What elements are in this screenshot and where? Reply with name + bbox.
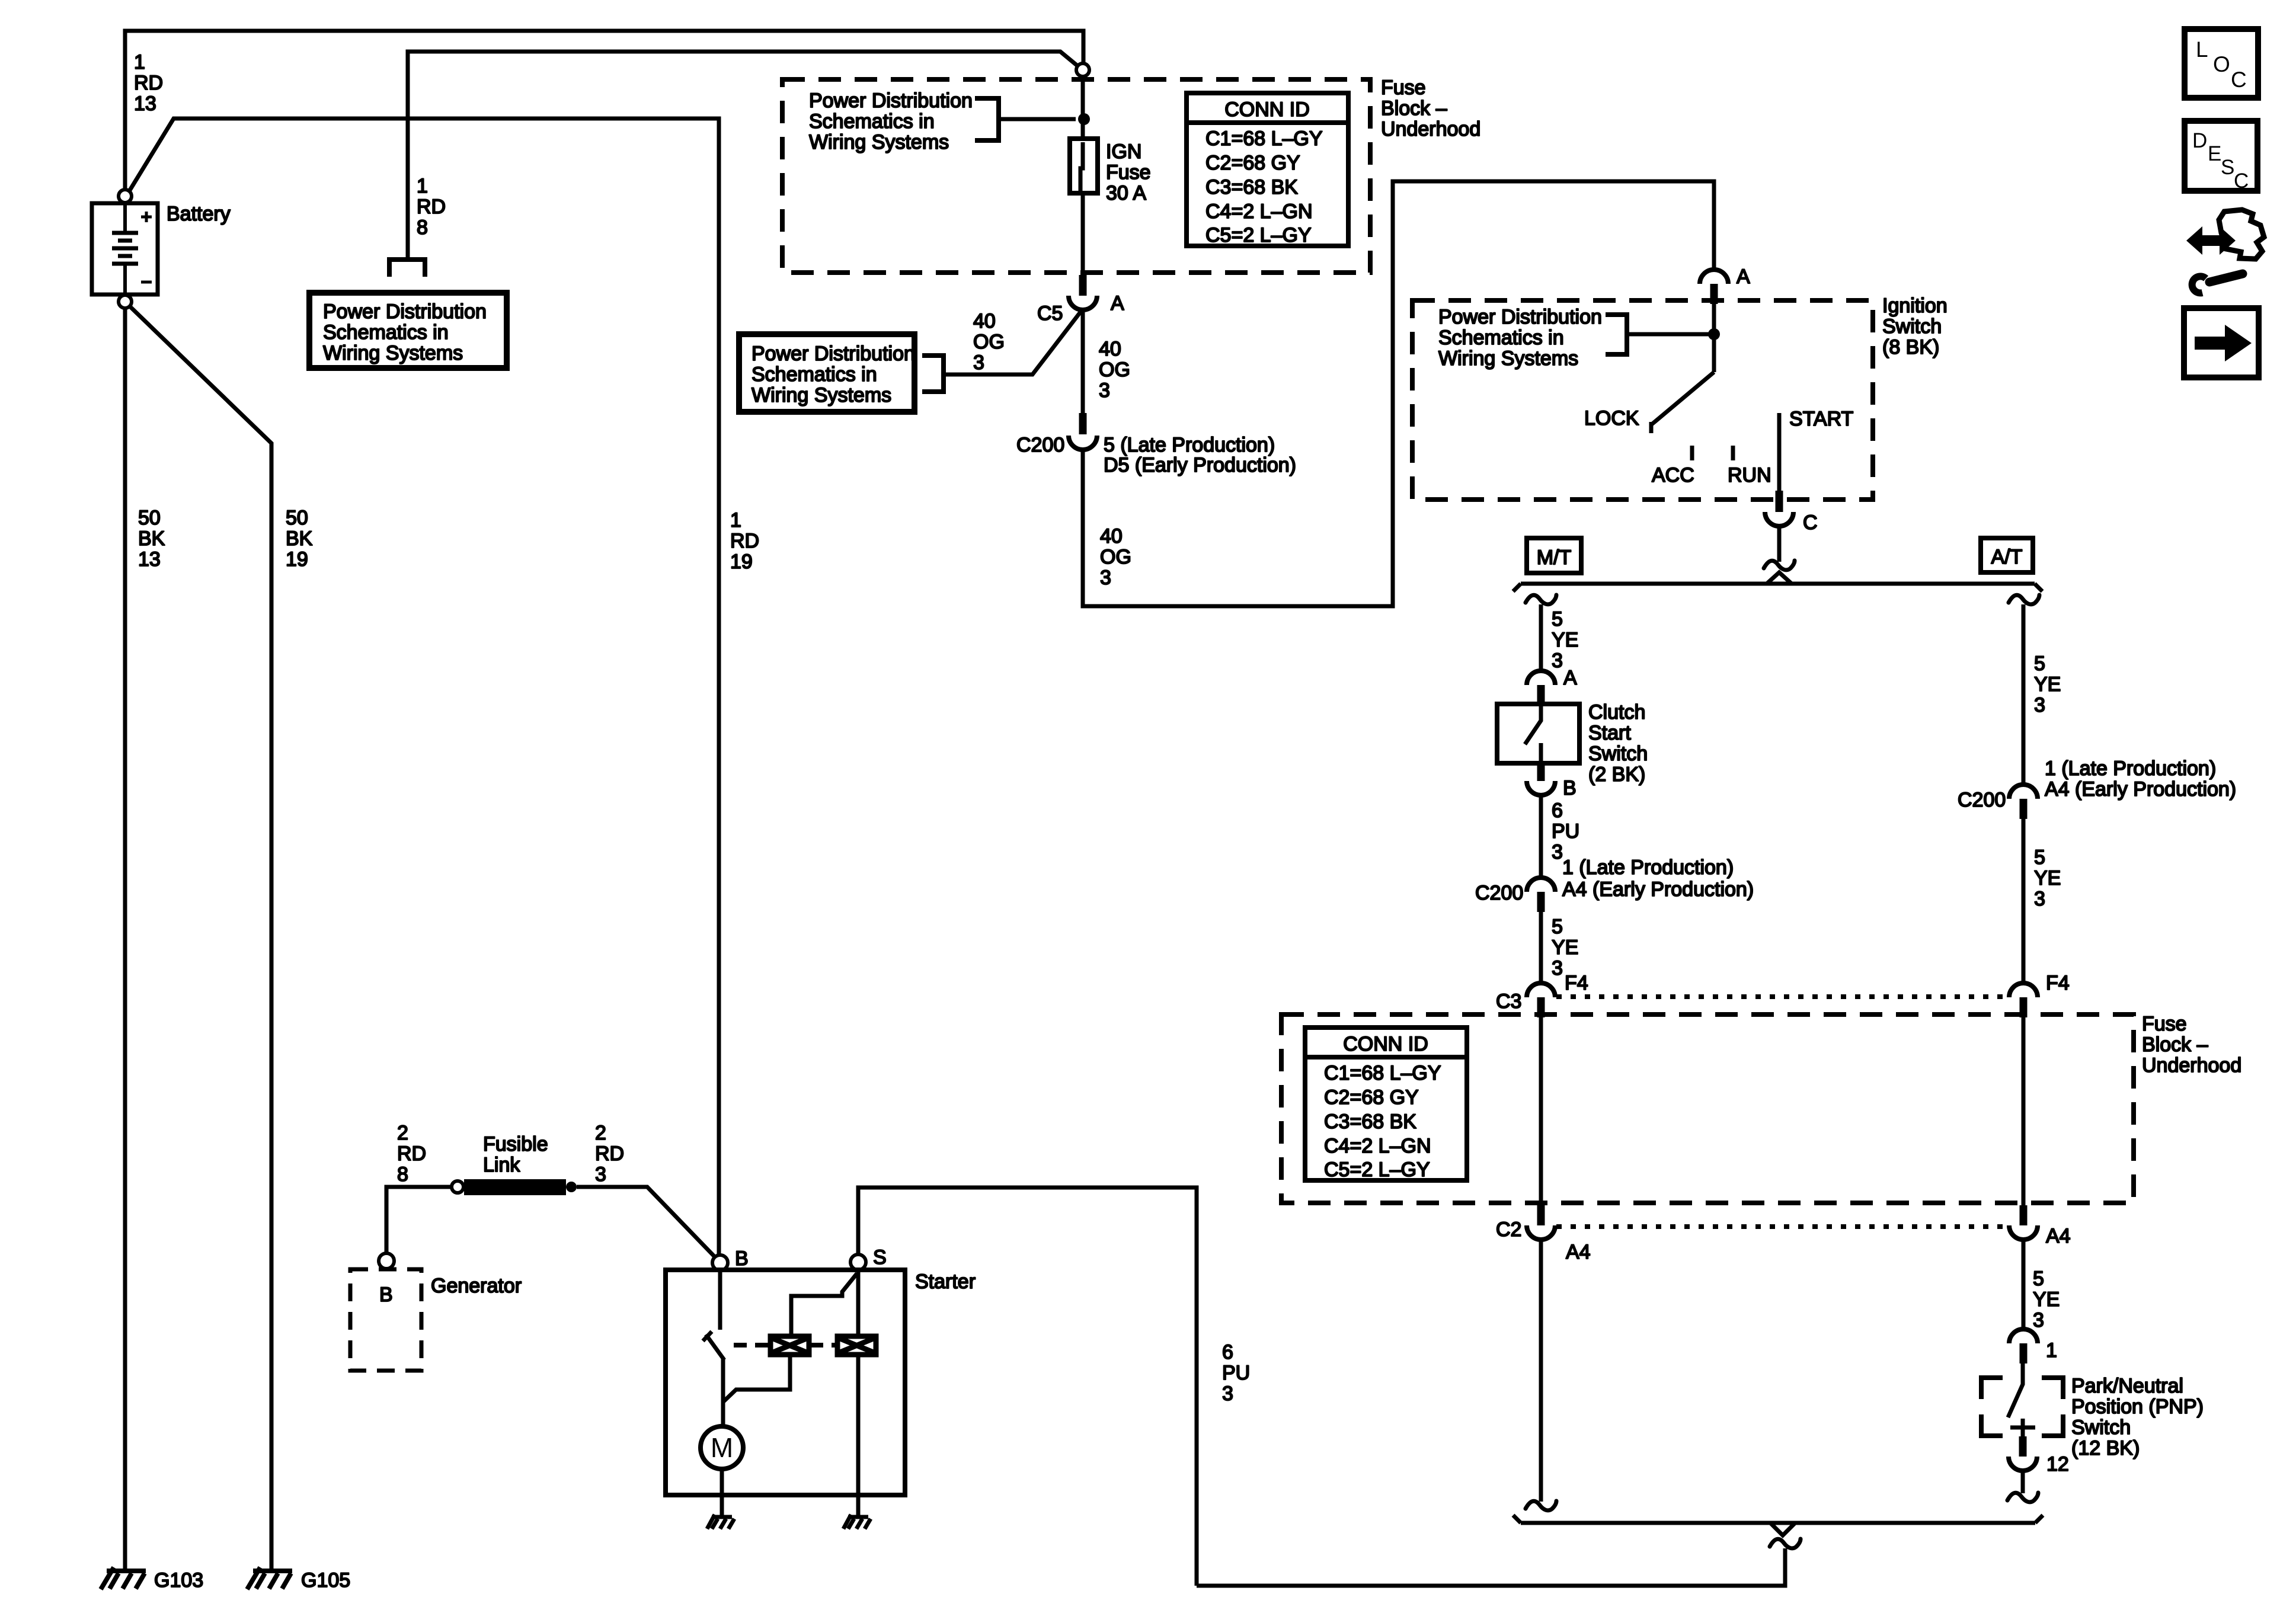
svg-text:50: 50: [138, 507, 161, 529]
svg-text:D5 (Early Production): D5 (Early Production): [1104, 454, 1296, 476]
bracket: reference bracket beside note (fuse block): [975, 98, 999, 140]
battery: cell plates: [123, 203, 127, 295]
M/T tag box: [1527, 538, 1581, 573]
A/T tag box: [1981, 538, 2033, 572]
svg-text:3: 3: [2033, 1309, 2044, 1331]
svg-text:BK: BK: [286, 527, 313, 550]
node: open junction circle at fuse feed: [1076, 63, 1089, 76]
svg-text:5: 5: [2034, 652, 2045, 675]
PNP switch dashed corner box: [1981, 1378, 2063, 1436]
svg-text:LOCK: LOCK: [1584, 407, 1639, 430]
svg-text:3: 3: [973, 351, 984, 374]
generator dashed box: [350, 1269, 421, 1371]
svg-text:Ignition: Ignition: [1882, 295, 1948, 317]
svg-text:B: B: [735, 1247, 749, 1270]
ignition switch dashed box: [1412, 300, 1873, 500]
fusible link: right dot: [566, 1182, 577, 1192]
svg-text:3: 3: [2034, 694, 2045, 716]
junction dot on ignition wiper: [1708, 328, 1720, 340]
ground: starter solenoid: [843, 1515, 871, 1529]
svg-text:Underhood: Underhood: [2142, 1054, 2241, 1077]
svg-text:G105: G105: [301, 1569, 350, 1592]
svg-text:F4: F4: [1565, 972, 1588, 994]
wire: ignition A tick down through junction: [1712, 304, 1716, 372]
CONN ID table (upper fuse block): [1187, 93, 1348, 247]
connector clutch B: male tick: [1537, 761, 1545, 781]
connector ignition C: female cup: [1765, 512, 1793, 526]
svg-text:Underhood: Underhood: [1381, 118, 1480, 140]
wire: C200 loop to ignition switch terminal A: [1083, 181, 1714, 606]
svg-text:M: M: [711, 1432, 733, 1463]
connector C200 M/T: male tick: [1537, 892, 1545, 912]
connector clutch A: male tick: [1537, 685, 1545, 705]
svg-text:YE: YE: [2033, 1288, 2060, 1311]
svg-text:O: O: [2213, 52, 2230, 76]
svg-text:8: 8: [397, 1163, 408, 1186]
svg-text:C3: C3: [1496, 990, 1521, 1013]
svg-text:Starter: Starter: [915, 1270, 976, 1293]
svg-text:C1=68 L–GY: C1=68 L–GY: [1205, 127, 1323, 150]
wire: bracket to IGN feed junction: [999, 117, 1076, 121]
wire: PNP 12 down to rejoin: [2021, 1471, 2025, 1493]
wire: F4 through fuse block to A4: [2022, 1017, 2026, 1205]
svg-text:BK: BK: [138, 527, 165, 550]
wire: fusible link to starter B: [577, 1187, 715, 1257]
svg-text:A/T: A/T: [1991, 546, 2023, 568]
svg-text:Schematics in: Schematics in: [752, 363, 877, 386]
svg-text:3: 3: [1552, 841, 1563, 863]
wire: generator B up to fusible link: [386, 1187, 451, 1253]
svg-text:6: 6: [1552, 799, 1563, 822]
svg-text:40: 40: [1099, 338, 1121, 360]
starter: S feed diagonal to pull-in coil: [791, 1273, 857, 1336]
svg-text:Power Distribution: Power Distribution: [809, 89, 973, 112]
svg-text:Park/Neutral: Park/Neutral: [2071, 1375, 2183, 1397]
connector C5 pin A: male tick: [1079, 275, 1087, 296]
svg-text:C5=2 L–GY: C5=2 L–GY: [1324, 1158, 1430, 1181]
wire: bracket to ignition wiper junction: [1627, 332, 1710, 337]
battery: box: [92, 203, 158, 295]
wire: clutch B down to C200: [1539, 795, 1543, 878]
hook: right end of bus: [2035, 1515, 2043, 1523]
connector PNP 12: female cup: [2009, 1457, 2037, 1471]
svg-text:RD: RD: [397, 1142, 426, 1165]
svg-text:12: 12: [2046, 1453, 2069, 1475]
svg-text:A4 (Early Production): A4 (Early Production): [2045, 778, 2236, 801]
svg-text:C200: C200: [1958, 789, 2006, 811]
break squiggle: M/T branch: [1526, 595, 1556, 604]
svg-text:40: 40: [973, 310, 996, 332]
svg-text:5: 5: [2034, 846, 2045, 869]
svg-text:F4: F4: [2046, 972, 2070, 994]
fuse block underhood dashed box (lower): [1281, 1014, 2134, 1203]
svg-text:Switch: Switch: [1588, 742, 1648, 765]
svg-text:Battery: Battery: [167, 203, 231, 225]
connector C2 A4: male tick: [1537, 1205, 1545, 1225]
connector A4 A/T: male tick: [2020, 1205, 2028, 1225]
svg-text:C2=68 GY: C2=68 GY: [1324, 1086, 1419, 1109]
svg-text:A: A: [1111, 292, 1124, 315]
box: Power Distribution Schematics in Wiring Systems (left): [309, 293, 507, 368]
svg-text:C: C: [2231, 68, 2247, 92]
connector ignition C: male tick: [1776, 491, 1783, 512]
starter: B feed into solenoid switch: [718, 1271, 722, 1330]
break squiggle: M/T rejoin: [1526, 1501, 1556, 1510]
icon: arrow box: [2184, 308, 2259, 377]
wire: junction node left along second row to 1 RD 8 drop: [408, 52, 1077, 258]
break squiggle: A/T rejoin: [2007, 1493, 2038, 1502]
svg-text:C2=68 GY: C2=68 GY: [1205, 152, 1300, 174]
clutch start switch box: [1497, 704, 1579, 763]
svg-text:(12 BK): (12 BK): [2071, 1437, 2140, 1459]
svg-text:Wiring Systems: Wiring Systems: [1438, 347, 1578, 370]
svg-text:3: 3: [2034, 888, 2045, 910]
icon: schematic navigation (arrow, connector outline, wrench): [2186, 210, 2264, 293]
svg-text:S: S: [873, 1246, 887, 1269]
svg-text:G103: G103: [154, 1569, 203, 1592]
wire: battery negative diagonal to ground G105: [130, 306, 271, 1569]
svg-text:1 (Late Production): 1 (Late Production): [2045, 757, 2216, 780]
ground G103 symbol: [101, 1567, 146, 1589]
dotted connector rail (lower, C2 to A4): [1556, 1224, 2007, 1229]
svg-text:ACC: ACC: [1652, 464, 1694, 486]
connector PNP 1: male tick: [2020, 1343, 2028, 1363]
caret junction: starter feed joins bus: [1770, 1523, 1795, 1535]
battery: minus sign: [141, 281, 152, 284]
connector ignition A: female cup: [1700, 270, 1728, 284]
wire: C3 through fuse block to C2: [1539, 1017, 1543, 1205]
starter motor M circle: [701, 1426, 743, 1469]
svg-text:A4 (Early Production): A4 (Early Production): [1562, 878, 1754, 901]
svg-text:3: 3: [1552, 649, 1563, 672]
fuse block underhood dashed box (upper): [782, 79, 1370, 273]
switch wiper: lever toward LOCK: [1651, 372, 1714, 433]
svg-text:13: 13: [134, 92, 156, 115]
svg-text:B: B: [379, 1283, 393, 1306]
svg-text:YE: YE: [1552, 936, 1578, 959]
icon: DESC box: [2185, 121, 2257, 193]
generator terminal B circle: [379, 1253, 394, 1269]
svg-text:Power Distribution: Power Distribution: [1438, 306, 1602, 328]
starter: switch to motor wire with coil tap: [723, 1355, 790, 1426]
svg-text:1: 1: [730, 509, 741, 532]
svg-text:YE: YE: [2034, 673, 2061, 696]
svg-text:RD: RD: [134, 72, 163, 94]
PNP switch lever and contact: [2008, 1363, 2035, 1438]
svg-text:Block –: Block –: [1381, 97, 1447, 120]
svg-text:Link: Link: [483, 1154, 520, 1176]
CONN ID table (lower fuse block): [1305, 1028, 1467, 1181]
svg-text:1: 1: [134, 51, 145, 73]
svg-text:Fuse: Fuse: [1106, 161, 1151, 184]
svg-text:IGN: IGN: [1106, 140, 1141, 163]
svg-text:YE: YE: [1552, 629, 1578, 651]
svg-text:Wiring Systems: Wiring Systems: [752, 384, 891, 406]
svg-text:A: A: [1737, 265, 1750, 288]
svg-text:3: 3: [1222, 1382, 1233, 1405]
wire: battery positive up and across top to junction node: [125, 31, 1083, 190]
svg-text:19: 19: [730, 550, 753, 573]
svg-text:START: START: [1789, 408, 1853, 430]
fusible link: left open circle: [452, 1181, 463, 1193]
svg-text:13: 13: [138, 548, 161, 571]
starter coil 2 (hold-in winding): [837, 1336, 876, 1355]
battery: positive terminal circle: [119, 190, 132, 203]
svg-text:5: 5: [1552, 608, 1563, 630]
svg-text:C200: C200: [1475, 882, 1523, 904]
bracket: off-page connector above Power Distribution box (left): [389, 260, 425, 277]
svg-text:B: B: [1563, 777, 1576, 799]
svg-text:A4: A4: [1566, 1241, 1591, 1263]
connector C200 (orange feed): female cup: [1069, 436, 1097, 450]
wire: C5 down to C200: [1081, 310, 1085, 413]
svg-text:L: L: [2196, 37, 2208, 62]
bottom rejoin bus line: [1521, 1521, 2035, 1525]
svg-text:C: C: [2234, 169, 2249, 193]
clutch switch contacts and lever: [1525, 705, 1541, 763]
connector clutch B: female cup: [1527, 781, 1555, 795]
hook: left end of bus: [1513, 1515, 1521, 1523]
connector clutch A: female cup: [1527, 671, 1555, 685]
svg-text:Fuse: Fuse: [2142, 1013, 2187, 1035]
svg-text:PU: PU: [1552, 820, 1579, 843]
svg-text:RUN: RUN: [1728, 464, 1771, 486]
wire: solenoid to ground: [856, 1495, 861, 1515]
battery: plus sign: [141, 212, 152, 222]
connector F4 A/T: female cup: [2009, 983, 2038, 997]
starter: solenoid switch lever: [703, 1331, 724, 1360]
wire: START contact down to terminal C: [1777, 413, 1782, 491]
connector A4 A/T: female cup: [2009, 1225, 2038, 1240]
bracket: reference bracket inside ignition box: [1606, 315, 1627, 354]
svg-text:S: S: [2221, 156, 2234, 179]
svg-text:1: 1: [2046, 1339, 2057, 1362]
starter coil 1 (pull-in winding): [770, 1336, 809, 1355]
ground G105 symbol: [247, 1567, 292, 1589]
svg-text:3: 3: [1552, 957, 1563, 980]
svg-text:Wiring Systems: Wiring Systems: [809, 131, 949, 153]
svg-text:8: 8: [417, 216, 428, 239]
connector C200 (orange feed): male tick: [1079, 413, 1087, 434]
svg-text:Wiring Systems: Wiring Systems: [323, 342, 463, 364]
wire: motor to ground: [720, 1469, 724, 1515]
svg-text:RD: RD: [730, 530, 759, 552]
svg-text:C4=2 L–GN: C4=2 L–GN: [1205, 200, 1313, 223]
wire: M/T branch down to clutch switch A: [1539, 604, 1543, 671]
svg-text:50: 50: [286, 507, 308, 529]
svg-text:CONN ID: CONN ID: [1224, 98, 1310, 121]
svg-text:30 A: 30 A: [1106, 182, 1146, 204]
wire: IGN fuse down to C5: [1081, 193, 1085, 275]
svg-text:A: A: [1563, 667, 1577, 689]
svg-text:1 (Late Production): 1 (Late Production): [1562, 856, 1734, 879]
fuse F IGN: element wire: [1080, 142, 1083, 191]
contact tick: RUN: [1731, 446, 1735, 460]
connector ignition A: male tick: [1710, 284, 1718, 304]
svg-text:Power Distribution: Power Distribution: [752, 343, 915, 365]
svg-text:Block –: Block –: [2142, 1033, 2208, 1056]
connector PNP 1: female cup: [2009, 1329, 2038, 1343]
connector PNP 12: male tick: [2019, 1436, 2027, 1457]
svg-text:3: 3: [1100, 566, 1111, 589]
A/T branch: squiggle: [2009, 595, 2039, 604]
svg-text:OG: OG: [1100, 546, 1131, 568]
wire: A/T branch down to C200: [2022, 604, 2026, 785]
battery B+ diagonal feed to starter column: [130, 119, 719, 1254]
icon: LOC box: [2185, 29, 2258, 98]
break squiggle: below bus caret: [1770, 1539, 1801, 1548]
connector C3 F4: female cup: [1527, 983, 1555, 997]
svg-text:OG: OG: [973, 331, 1005, 353]
fusible link: body bar: [464, 1179, 566, 1195]
dotted connector rail (upper, C3 to F4): [1556, 994, 2007, 999]
svg-text:M/T: M/T: [1537, 546, 1572, 569]
connector C200 M/T: female cup: [1527, 878, 1555, 892]
svg-text:C: C: [1803, 511, 1818, 534]
hook: left end of split line: [1513, 584, 1521, 591]
svg-text:(2 BK): (2 BK): [1588, 763, 1645, 786]
junction dot above IGN fuse: [1078, 113, 1090, 125]
svg-text:E: E: [2208, 142, 2221, 165]
bracket: reference bracket beside lower Power Distribution box: [922, 356, 944, 392]
connector C2 A4: female cup: [1527, 1225, 1555, 1240]
battery: negative terminal circle: [119, 295, 132, 308]
starter box: [666, 1270, 905, 1495]
svg-text:YE: YE: [2034, 867, 2061, 889]
svg-text:C200: C200: [1016, 434, 1064, 456]
svg-text:3: 3: [1099, 379, 1110, 402]
svg-text:C4=2 L–GN: C4=2 L–GN: [1324, 1135, 1431, 1157]
svg-text:D: D: [2192, 129, 2207, 152]
svg-text:Fusible: Fusible: [483, 1133, 548, 1156]
svg-text:RD: RD: [417, 196, 446, 218]
wire: C200 A/T down to F4: [2022, 819, 2026, 983]
connector C3 F4: male tick: [1537, 997, 1545, 1017]
wire: node down to IGN fuse: [1081, 76, 1085, 140]
svg-text:Fuse: Fuse: [1381, 76, 1426, 99]
svg-text:A4: A4: [2046, 1225, 2071, 1247]
svg-text:Position (PNP): Position (PNP): [2071, 1395, 2204, 1418]
svg-text:5: 5: [2033, 1267, 2044, 1290]
svg-text:C3=68 BK: C3=68 BK: [1324, 1110, 1416, 1133]
svg-text:Schematics in: Schematics in: [809, 110, 935, 133]
svg-text:Power Distribution: Power Distribution: [323, 300, 487, 323]
wire: starter S up and across to PNP bus (6 PU 3): [858, 1188, 1197, 1586]
connector C200 A/T: female cup: [2009, 785, 2038, 799]
svg-text:(8 BK): (8 BK): [1882, 336, 1939, 359]
caret junction: C wire joins split line: [1767, 572, 1792, 584]
connector F4 A/T: male tick: [2020, 997, 2028, 1017]
svg-text:5: 5: [1552, 916, 1563, 938]
break squiggle below C: [1764, 561, 1795, 570]
svg-text:PU: PU: [1222, 1362, 1250, 1384]
svg-text:RD: RD: [595, 1142, 624, 1165]
svg-text:3: 3: [595, 1163, 606, 1186]
svg-text:Clutch: Clutch: [1588, 701, 1645, 724]
M/T A/T split line: [1521, 582, 2035, 586]
svg-text:Schematics in: Schematics in: [323, 321, 449, 344]
svg-text:Switch: Switch: [2071, 1416, 2131, 1439]
starter: S wire through hold-in coil to ground: [856, 1270, 861, 1496]
svg-text:C5: C5: [1037, 302, 1063, 325]
svg-text:C1=68 L–GY: C1=68 L–GY: [1324, 1062, 1441, 1084]
svg-text:Generator: Generator: [431, 1275, 522, 1297]
svg-text:Start: Start: [1588, 722, 1631, 744]
wire: C200 down to C3: [1539, 912, 1543, 983]
starter: dashed mechanical link: [734, 1343, 836, 1347]
svg-text:1: 1: [417, 175, 428, 197]
svg-text:C5=2 L–GY: C5=2 L–GY: [1205, 224, 1312, 247]
contact tick: ACC: [1690, 446, 1694, 460]
svg-text:2: 2: [595, 1122, 606, 1144]
svg-text:C3=68 BK: C3=68 BK: [1205, 176, 1298, 199]
connector C200 A/T: male tick: [2020, 799, 2028, 819]
fuse F IGN: body: [1070, 139, 1098, 193]
svg-text:CONN ID: CONN ID: [1343, 1033, 1428, 1055]
svg-text:C2: C2: [1496, 1218, 1521, 1241]
connector C5 pin A: female cup: [1069, 296, 1097, 310]
svg-text:OG: OG: [1099, 359, 1130, 381]
svg-text:2: 2: [397, 1122, 408, 1144]
wire: 40 OG 3 diagonal to power distribution reference: [946, 311, 1082, 375]
svg-text:19: 19: [286, 548, 308, 571]
svg-text:40: 40: [1100, 525, 1123, 548]
svg-text:5 (Late Production): 5 (Late Production): [1104, 434, 1275, 456]
svg-text:Schematics in: Schematics in: [1438, 327, 1564, 349]
box: Power Distribution Schematics in Wiring Systems (lower): [739, 334, 914, 412]
wire: bus down and left to starter 6 PU 3 feed: [1197, 1548, 1785, 1586]
svg-text:Switch: Switch: [1882, 315, 1942, 338]
svg-text:6: 6: [1222, 1341, 1233, 1363]
starter terminal B circle: [712, 1255, 728, 1270]
wire: A4 down to PNP pin 1: [2022, 1240, 2026, 1330]
hook: right end of split line: [2035, 584, 2042, 591]
ground: starter motor: [707, 1515, 734, 1529]
wire: battery negative to ground G103: [123, 309, 127, 1569]
wire: C down to transmission split: [1777, 526, 1782, 562]
starter terminal S circle: [850, 1254, 866, 1270]
wire: C2 down to M/T join: [1539, 1240, 1543, 1502]
